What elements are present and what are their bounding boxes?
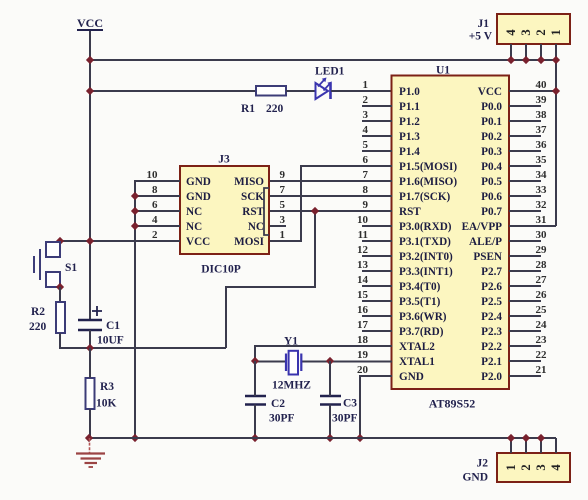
junction crystal right node: [326, 357, 334, 365]
wire crystal right node to XTAL1: [301, 361, 392, 363]
wire S1 to R2: [59, 287, 61, 302]
svg-text:14: 14: [357, 274, 369, 286]
svg-text:220: 220: [29, 321, 47, 333]
svg-text:P0.2: P0.2: [481, 131, 502, 143]
svg-text:7: 7: [280, 184, 286, 196]
svg-text:9: 9: [363, 199, 369, 211]
wire U1 pin 33 stub: [509, 195, 541, 197]
svg-text:J2: J2: [477, 458, 489, 470]
wire U1 GND pin to ground rail: [360, 376, 392, 438]
svg-text:3: 3: [534, 464, 548, 470]
svg-text:NC: NC: [186, 206, 202, 218]
wire VCC to R1: [90, 90, 256, 92]
connector J2 body: [497, 453, 570, 482]
resistor R2: [56, 302, 65, 333]
wire U1 pin 13 stub: [362, 270, 392, 272]
wire U1 pin 24 stub: [509, 330, 541, 332]
svg-text:P0.3: P0.3: [481, 146, 502, 158]
svg-text:26: 26: [536, 289, 548, 301]
svg-text:P3.4(T0): P3.4(T0): [399, 281, 441, 293]
power symbol VCC bar: [77, 29, 103, 31]
wire U1 pin 4 stub: [362, 135, 392, 137]
svg-text:40: 40: [536, 79, 548, 91]
junction J1 pin 1 on VCC rail: [552, 56, 560, 64]
svg-text:NC: NC: [186, 221, 202, 233]
wire U1 pin 29 stub: [509, 255, 541, 257]
svg-text:25: 25: [536, 304, 548, 316]
svg-text:4: 4: [363, 124, 369, 136]
svg-text:1: 1: [363, 79, 369, 91]
junction J2 pin 3 on ground rail: [537, 434, 545, 442]
svg-text:P0.4: P0.4: [481, 161, 502, 173]
wire U1 pin 35 stub: [509, 165, 541, 167]
svg-text:P1.3: P1.3: [399, 131, 420, 143]
svg-text:C1: C1: [106, 320, 120, 332]
svg-text:GND: GND: [462, 472, 488, 484]
svg-text:GND: GND: [399, 371, 424, 383]
resistor R1: [256, 86, 286, 96]
wire J1 pin 4 stub: [510, 44, 512, 60]
junction J1 pin 3 on VCC rail: [522, 56, 530, 64]
svg-text:5: 5: [280, 199, 286, 211]
wire J3 pin 4: [135, 225, 180, 227]
svg-text:220: 220: [266, 103, 284, 115]
wire U1 pin 32 stub: [509, 210, 541, 212]
svg-text:R2: R2: [31, 306, 45, 318]
svg-text:29: 29: [536, 244, 548, 256]
junction S1 branch on VCC wire: [86, 237, 94, 245]
svg-text:15: 15: [357, 289, 369, 301]
svg-text:C2: C2: [271, 398, 285, 410]
wire J3 pin 8: [135, 195, 180, 197]
svg-text:30PF: 30PF: [332, 413, 358, 425]
wire U1 pin 28 stub: [509, 270, 541, 272]
svg-text:PSEN: PSEN: [473, 251, 502, 263]
wire J3 SCK to U1 P1.7: [270, 195, 392, 197]
svg-text:37: 37: [536, 124, 548, 136]
svg-text:XTAL2: XTAL2: [399, 341, 435, 353]
junction J1 pin 4 on VCC rail: [507, 56, 515, 64]
svg-text:P1.4: P1.4: [399, 146, 420, 158]
svg-text:P0.6: P0.6: [481, 191, 502, 203]
wire U1 pin 21 stub: [509, 375, 541, 377]
junction J3 pin 6 on ground column: [131, 207, 139, 215]
junction VCC rail at stem: [86, 56, 94, 64]
svg-text:16: 16: [357, 304, 369, 316]
svg-text:3: 3: [363, 109, 369, 121]
wire J3 pin 3 stub: [270, 225, 286, 227]
wire VCC to S1 and J3 VCC pin: [60, 240, 180, 242]
svg-text:S1: S1: [65, 262, 77, 274]
ground symbol: [76, 438, 105, 467]
svg-text:Y1: Y1: [284, 336, 298, 348]
wire J2 pin 4 stub: [555, 438, 557, 453]
svg-text:P2.5: P2.5: [481, 296, 502, 308]
svg-text:P1.7(SCK): P1.7(SCK): [399, 191, 451, 203]
svg-text:P0.0: P0.0: [481, 101, 502, 113]
svg-text:RST: RST: [399, 206, 421, 218]
svg-text:6: 6: [363, 154, 369, 166]
svg-text:P0.5: P0.5: [481, 176, 502, 188]
svg-text:GND: GND: [186, 176, 211, 188]
switch S1: [34, 242, 60, 287]
IC U1 body: [392, 76, 510, 390]
svg-text:1: 1: [280, 229, 286, 241]
wire crystal left to C2: [254, 361, 256, 396]
wire RST node to R3: [89, 348, 91, 378]
svg-text:P3.6(WR): P3.6(WR): [399, 311, 447, 323]
svg-text:9: 9: [280, 169, 286, 181]
svg-text:12: 12: [357, 244, 369, 256]
wire crystal right to C3: [329, 361, 331, 396]
wire crystal left node: [255, 361, 286, 363]
svg-text:18: 18: [357, 334, 369, 346]
svg-text:8: 8: [363, 184, 369, 196]
wire U1 pin 5 stub: [362, 150, 392, 152]
junction R3 and ground symbol at rail: [85, 434, 93, 442]
svg-text:30: 30: [536, 229, 548, 241]
wire RST net J3 to U1: [270, 210, 392, 212]
svg-text:J1: J1: [478, 18, 490, 30]
svg-text:P0.7: P0.7: [481, 206, 502, 218]
wire U1 pin 36 stub: [509, 150, 541, 152]
svg-text:10: 10: [357, 214, 369, 226]
wire U1 pin 10 stub: [362, 225, 392, 227]
wire U1 pin 37 stub: [509, 135, 541, 137]
svg-text:13: 13: [357, 259, 369, 271]
svg-text:10UF: 10UF: [97, 335, 124, 347]
svg-text:U1: U1: [436, 65, 450, 77]
svg-text:1: 1: [549, 29, 563, 35]
wire J2 pin 3 stub: [540, 438, 542, 453]
svg-text:32: 32: [536, 199, 548, 211]
wire J1 pin 2 stub: [540, 44, 542, 60]
svg-text:3: 3: [280, 214, 286, 226]
svg-text:MISO: MISO: [234, 176, 264, 188]
svg-text:P1.6(MISO): P1.6(MISO): [399, 176, 457, 188]
svg-text:5: 5: [363, 139, 369, 151]
svg-text:XTAL1: XTAL1: [399, 356, 435, 368]
wire J3 MISO to U1 P1.6: [270, 180, 392, 182]
wire U1 pin 2 stub: [362, 105, 392, 107]
svg-text:P1.1: P1.1: [399, 101, 420, 113]
wire LED1 to U1 pin 1: [331, 90, 392, 92]
wire VCC stem: [89, 31, 91, 320]
wire U1 pin 38 stub: [509, 120, 541, 122]
svg-text:27: 27: [536, 274, 548, 286]
junction R1 feed at VCC stem: [86, 87, 94, 95]
junction J2 pin 2 on ground rail: [522, 434, 530, 442]
LED LED1: [316, 78, 333, 100]
svg-text:P3.1(TXD): P3.1(TXD): [399, 236, 451, 248]
svg-text:22: 22: [536, 349, 548, 361]
wire VCC rail to J1: [90, 59, 557, 61]
svg-text:P1.2: P1.2: [399, 116, 420, 128]
svg-text:VCC: VCC: [478, 86, 502, 98]
svg-text:17: 17: [357, 319, 369, 331]
wire C3 to ground rail: [329, 405, 331, 439]
svg-text:28: 28: [536, 259, 548, 271]
junction C2 at ground rail: [251, 434, 259, 442]
wire U1 pin 3 stub: [362, 120, 392, 122]
wire U1 pin 16 stub: [362, 315, 392, 317]
wire U1 pin 25 stub: [509, 315, 541, 317]
svg-text:21: 21: [536, 364, 547, 376]
capacitor C3: [320, 396, 341, 405]
wire C1 to RST node: [89, 330, 91, 348]
svg-text:P2.4: P2.4: [481, 311, 502, 323]
wire J1 pin 3 stub: [525, 44, 527, 60]
wire U1 pin 14 stub: [362, 285, 392, 287]
svg-text:2: 2: [534, 29, 548, 35]
svg-text:4: 4: [152, 214, 158, 226]
svg-text:8: 8: [152, 184, 158, 196]
svg-text:P1.5(MOSI): P1.5(MOSI): [399, 161, 457, 173]
svg-text:10K: 10K: [96, 398, 117, 410]
svg-text:24: 24: [536, 319, 548, 331]
svg-text:11: 11: [358, 229, 368, 241]
wire U1 pin 11 stub: [362, 240, 392, 242]
junction U1 GND at ground rail: [356, 434, 364, 442]
svg-text:P0.1: P0.1: [481, 116, 502, 128]
svg-text:35: 35: [536, 154, 548, 166]
wire XTAL2 to crystal: [255, 346, 392, 361]
svg-text:P3.2(INT0): P3.2(INT0): [399, 251, 453, 263]
svg-text:P2.6: P2.6: [481, 281, 502, 293]
wire R2 to RST node: [60, 333, 226, 348]
svg-text:P3.0(RXD): P3.0(RXD): [399, 221, 452, 233]
svg-text:+5 V: +5 V: [469, 31, 493, 43]
junction S1 top pin: [56, 237, 64, 245]
svg-text:P1.0: P1.0: [399, 86, 420, 98]
svg-text:7: 7: [363, 169, 369, 181]
svg-text:P3.5(T1): P3.5(T1): [399, 296, 441, 308]
wire R1 to LED1: [286, 90, 315, 92]
junction C3 at ground rail: [326, 434, 334, 442]
wire U1 pin 30 stub: [509, 240, 541, 242]
svg-text:AT89S52: AT89S52: [429, 397, 475, 411]
svg-text:P2.2: P2.2: [481, 341, 502, 353]
junction ground column at rail: [131, 434, 139, 442]
wire U1 pin 34 stub: [509, 180, 541, 182]
svg-text:6: 6: [152, 199, 158, 211]
wire RST node to RST row: [226, 211, 315, 348]
svg-text:36: 36: [536, 139, 548, 151]
svg-text:2: 2: [519, 464, 533, 470]
capacitor C2: [245, 396, 266, 405]
svg-text:VCC: VCC: [186, 236, 210, 248]
junction J3 pin 8 on ground column: [131, 192, 139, 200]
resistor R3: [86, 378, 95, 409]
svg-text:10: 10: [147, 169, 159, 181]
svg-text:1: 1: [504, 464, 518, 470]
wire J3 pin 10 to ground column: [135, 181, 180, 438]
svg-text:39: 39: [536, 94, 548, 106]
wire U1 pin 12 stub: [362, 255, 392, 257]
svg-text:GND: GND: [186, 191, 211, 203]
svg-text:P2.1: P2.1: [481, 356, 502, 368]
connector J1 body: [497, 14, 570, 44]
svg-text:2: 2: [152, 229, 158, 241]
svg-text:4: 4: [504, 29, 518, 36]
svg-text:23: 23: [536, 334, 548, 346]
wire J3 MOSI to U1 P1.5: [270, 166, 392, 241]
wire U1 pin 15 stub: [362, 300, 392, 302]
svg-text:34: 34: [536, 169, 548, 181]
wire U1 pin 31 to +5V feed: [509, 225, 556, 227]
wire U1 pin 26 stub: [509, 300, 541, 302]
wire J2 pin 2 stub: [525, 438, 527, 453]
junction pin 40 on +5V feed: [552, 87, 560, 95]
wire J2 pin 1 stub: [510, 438, 512, 453]
wire U1 pin 17 stub: [362, 330, 392, 332]
svg-text:MOSI: MOSI: [234, 236, 264, 248]
wire U1 pin 22 stub: [509, 360, 541, 362]
svg-text:DIC10P: DIC10P: [201, 264, 241, 276]
junction J2 pin 1 on ground rail: [507, 434, 515, 442]
junction J1 pin 2 on VCC rail: [537, 56, 545, 64]
svg-text:38: 38: [536, 109, 548, 121]
svg-text:C3: C3: [343, 398, 357, 410]
svg-text:J3: J3: [218, 154, 230, 166]
svg-text:P2.0: P2.0: [481, 371, 502, 383]
J3 right side bracket: [264, 188, 269, 235]
svg-text:2: 2: [363, 94, 369, 106]
svg-text:P3.3(INT1): P3.3(INT1): [399, 266, 453, 278]
junction RST branch on RST wire: [311, 207, 319, 215]
svg-text:33: 33: [536, 184, 548, 196]
svg-text:ALE/P: ALE/P: [469, 236, 502, 248]
wire R3 to ground rail: [89, 409, 91, 438]
svg-text:4: 4: [549, 464, 563, 471]
junction RST node: [86, 344, 94, 352]
svg-text:31: 31: [536, 214, 547, 226]
svg-text:19: 19: [357, 349, 369, 361]
svg-text:P2.7: P2.7: [481, 266, 502, 278]
wire U1 pin 23 stub: [509, 345, 541, 347]
svg-text:R3: R3: [100, 381, 114, 393]
junction crystal left node: [251, 357, 259, 365]
svg-text:SCK: SCK: [241, 191, 264, 203]
svg-text:R1: R1: [241, 103, 255, 115]
capacitor C1: [78, 306, 102, 330]
wire J1 pin 1 feed down right side: [555, 44, 557, 226]
wire ground rail: [89, 437, 556, 439]
junction J3 pin 4 on ground column: [131, 222, 139, 230]
svg-text:RST: RST: [242, 206, 264, 218]
junction S1 bottom pin: [56, 283, 64, 291]
wire C2 to ground rail: [254, 405, 256, 439]
wire U1 pin 27 stub: [509, 285, 541, 287]
svg-text:EA/VPP: EA/VPP: [462, 221, 503, 233]
svg-text:20: 20: [357, 364, 369, 376]
svg-text:LED1: LED1: [315, 66, 345, 78]
svg-text:30PF: 30PF: [269, 413, 295, 425]
svg-text:P3.7(RD): P3.7(RD): [399, 326, 444, 338]
wire J3 pin 6: [135, 210, 180, 212]
svg-text:VCC: VCC: [77, 16, 103, 30]
svg-text:P2.3: P2.3: [481, 326, 502, 338]
wire U1 pin 39 stub: [509, 105, 541, 107]
svg-text:NC: NC: [248, 221, 264, 233]
connector J3 body: [180, 166, 269, 254]
svg-text:3: 3: [519, 29, 533, 35]
wire U1 pin 40 to +5V feed: [509, 90, 556, 92]
svg-text:12MHZ: 12MHZ: [272, 380, 311, 392]
crystal Y1: [286, 351, 301, 375]
